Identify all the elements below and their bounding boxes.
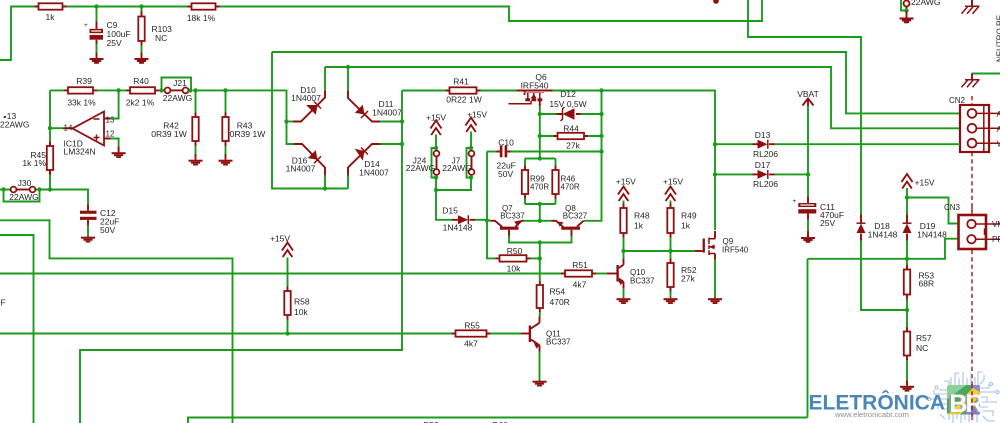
svg-text:22AWG: 22AWG — [911, 0, 940, 7]
node R44 left — [538, 134, 542, 138]
svg-text:J30: J30 — [18, 178, 32, 188]
wire D15 out — [475, 219, 487, 221]
svg-text:RL206: RL206 — [753, 149, 778, 159]
svg-text:VM: VM — [992, 220, 1000, 229]
svg-text:0R22 1W: 0R22 1W — [446, 95, 481, 105]
wire jumpers join — [436, 178, 471, 220]
svg-text:F: F — [1, 298, 6, 308]
svg-text:IRF540: IRF540 — [521, 81, 549, 91]
wire D16 bottom — [324, 175, 326, 189]
svg-text:22AWG: 22AWG — [442, 163, 471, 173]
transistor Q8 — [552, 221, 584, 236]
svg-text:22AWG: 22AWG — [0, 120, 29, 130]
wire top rail mid — [67, 6, 188, 8]
resistor R58 — [284, 258, 290, 334]
node bridge left — [284, 119, 288, 123]
svg-text:25V: 25V — [820, 218, 835, 228]
wire pin13 — [111, 90, 119, 118]
supply +15V R58 — [282, 243, 293, 258]
svg-text:1N4007: 1N4007 — [286, 164, 316, 174]
wire J21 to bridge — [193, 90, 287, 121]
diode D15 — [452, 215, 475, 224]
resistor R57 — [904, 310, 910, 381]
connector CN2 — [949, 96, 1000, 214]
wire Q7 Q8 emitters join — [509, 236, 572, 243]
ground Q11 — [533, 380, 547, 387]
wire CN3 pin1 — [907, 198, 958, 224]
svg-text:22AWG: 22AWG — [163, 93, 192, 103]
wire D11 out — [380, 121, 402, 123]
svg-text:CN3: CN3 — [944, 203, 961, 212]
node VBAT D17 — [806, 172, 810, 176]
wire stub top cut component — [713, 0, 719, 4]
wire bottom bus — [188, 418, 808, 423]
supply +15V D19 — [902, 174, 913, 189]
diode D17 — [753, 170, 775, 179]
resistor R41 — [446, 87, 481, 93]
wire D18 bottom — [861, 241, 907, 311]
jumper J7 — [467, 146, 475, 180]
svg-text:470R: 470R — [530, 183, 549, 192]
capacitor C11 — [793, 197, 817, 232]
node R49 bottom — [668, 249, 672, 253]
wire Q8 collector vertical — [584, 91, 602, 221]
wire R99 R46 bottom join — [525, 204, 556, 221]
node R53 top — [905, 257, 909, 261]
wire VBAT vertical — [807, 106, 809, 197]
ground C12 — [81, 236, 95, 243]
node R42 top — [193, 88, 197, 92]
wire bus y333 — [0, 333, 452, 335]
svg-text:1k: 1k — [634, 221, 644, 231]
resistor R51 — [561, 270, 607, 276]
node R44 right — [599, 134, 603, 138]
capacitor C12 — [80, 205, 97, 237]
node R43 top — [223, 88, 227, 92]
svg-text:68R: 68R — [919, 279, 935, 289]
supply +15V J7 — [466, 110, 488, 149]
svg-text:BR: BR — [949, 390, 983, 418]
wire R99 R46 top join — [525, 158, 556, 160]
svg-text:1k: 1k — [681, 221, 691, 231]
supply +15V R49 — [665, 187, 676, 202]
supply +15V J24 — [426, 113, 446, 149]
svg-text:1N4148: 1N4148 — [917, 230, 947, 240]
svg-text:RL206: RL206 — [753, 179, 778, 189]
node Q7 base bus left — [485, 218, 489, 222]
node jumpers join — [434, 188, 438, 192]
earth symbol top right — [962, 0, 980, 14]
wire gate row y251 — [624, 250, 696, 252]
resistor R48 — [620, 201, 626, 252]
jumper J21 — [159, 78, 192, 94]
resistor R103 — [138, 7, 144, 53]
node R99R46 top — [538, 156, 542, 160]
svg-text:470R: 470R — [550, 297, 570, 307]
wire AC bus y67 — [325, 67, 960, 128]
wire Q6 source down — [539, 107, 541, 159]
node R99R46 bottom — [538, 202, 542, 206]
resistor 1k — [35, 3, 67, 9]
svg-text:27k: 27k — [681, 274, 695, 284]
ground R43 — [219, 154, 233, 166]
wire D19 bottom — [906, 241, 908, 259]
ground Q10 — [617, 298, 631, 305]
node C10 right — [599, 149, 603, 153]
svg-text:IRF540: IRF540 — [722, 246, 749, 255]
transistor Q11 — [521, 317, 540, 381]
svg-text:10k: 10k — [507, 264, 521, 274]
node center base bus — [538, 219, 542, 223]
svg-text:D15: D15 — [442, 206, 458, 216]
svg-text:NC: NC — [916, 343, 928, 353]
node R39-R40 — [116, 88, 120, 92]
capacitor C9 — [84, 7, 103, 53]
jumper J30 — [1, 187, 41, 202]
svg-text:0R39 1W: 0R39 1W — [151, 129, 186, 139]
svg-text:+15V: +15V — [663, 177, 683, 187]
svg-text:+15V: +15V — [616, 177, 636, 187]
svg-text:J21: J21 — [173, 78, 187, 88]
svg-text:D17: D17 — [755, 160, 771, 170]
svg-text:R57: R57 — [916, 333, 932, 343]
svg-text:1N4007: 1N4007 — [372, 108, 402, 118]
svg-text:13: 13 — [106, 116, 115, 125]
wire bridge left stub — [287, 121, 294, 123]
wire Q7-Q8 base bus — [524, 220, 552, 222]
node op-amp out — [48, 126, 52, 130]
diode D16 — [294, 144, 325, 175]
jumper J?? top right — [901, 0, 910, 11]
diode D11 — [348, 67, 380, 122]
svg-text:R50: R50 — [507, 246, 523, 256]
svg-text:33k 1%: 33k 1% — [67, 98, 96, 108]
resistor R42 — [192, 90, 198, 154]
wire AC bus y37 — [748, 0, 861, 215]
wire AC bus y52 — [272, 52, 960, 113]
svg-text:D13: D13 — [755, 130, 771, 140]
resistor R44 — [554, 133, 589, 139]
jumper J24 — [432, 146, 440, 180]
svg-text:+: + — [84, 22, 88, 29]
node D19 +15 — [905, 195, 909, 199]
svg-text:V: V — [997, 140, 1000, 149]
ground R103 — [135, 53, 149, 64]
svg-text:1k 1%: 1k 1% — [22, 158, 46, 168]
svg-text:25V: 25V — [107, 38, 122, 48]
ground Q9 — [708, 298, 722, 305]
wire bridge left node — [287, 122, 295, 145]
svg-text:50V: 50V — [498, 169, 513, 179]
transistor Q7 — [487, 220, 524, 236]
svg-text:1N4007: 1N4007 — [291, 93, 321, 103]
node R45 bottom — [48, 187, 52, 191]
svg-text:BC327: BC327 — [563, 212, 588, 221]
svg-text:R39: R39 — [76, 76, 92, 86]
logo traces — [927, 372, 999, 423]
svg-text:10k: 10k — [294, 307, 308, 317]
ground C11 — [801, 231, 815, 243]
diode D13 — [753, 140, 775, 149]
svg-text:12: 12 — [106, 130, 115, 139]
resistor R52 — [667, 251, 673, 298]
svg-text:NC: NC — [155, 33, 167, 43]
svg-text:R54: R54 — [550, 287, 566, 297]
resistor R53 — [904, 259, 910, 310]
svg-text:4k7: 4k7 — [464, 339, 478, 349]
node R58 bottom — [285, 331, 289, 335]
svg-text:1k: 1k — [46, 12, 56, 22]
logo chip square — [947, 385, 980, 415]
node D17 in — [713, 172, 717, 176]
wire earth 2 — [972, 73, 1000, 75]
resistor R50 — [496, 255, 540, 261]
svg-text:+: + — [793, 198, 797, 205]
node D11 top — [346, 65, 350, 69]
svg-text:A: A — [997, 125, 1000, 134]
wire op-amp out — [50, 127, 63, 129]
svg-text:14: 14 — [64, 124, 73, 133]
resistor R40 — [126, 87, 159, 93]
transistor Q10 — [607, 251, 624, 298]
svg-text:27k: 27k — [566, 141, 580, 151]
resistor R43 — [222, 90, 228, 154]
svg-text:LM324N: LM324N — [64, 147, 96, 157]
wire R41 row — [402, 91, 715, 231]
wire C10 left vertical — [487, 152, 496, 259]
diode D10 — [293, 90, 325, 121]
supply +15V R48 — [618, 187, 629, 202]
mosfet Q6 — [509, 91, 553, 107]
wire D12 row — [540, 113, 602, 115]
wire R44 row — [540, 135, 602, 137]
op-amp IC1D — [63, 112, 111, 146]
svg-text:22AWG: 22AWG — [406, 163, 435, 173]
wire D13 row — [715, 143, 960, 145]
resistor R45 — [47, 142, 53, 175]
diode D14 — [348, 144, 380, 189]
svg-text:1N4007: 1N4007 — [359, 168, 389, 178]
wire bus y220 — [0, 220, 233, 423]
ground R57 — [900, 381, 914, 392]
node bridge bottom — [323, 186, 327, 190]
node R53 bottom — [905, 308, 909, 312]
node bridge right top — [400, 119, 404, 123]
earth symbol 2 — [962, 74, 980, 88]
svg-text:D12: D12 — [560, 89, 576, 99]
svg-text:R51: R51 — [572, 260, 588, 270]
diode D12 zener — [557, 107, 581, 121]
svg-text:www.eletronicabr.com: www.eletronicabr.com — [834, 410, 909, 419]
node C9 top — [94, 4, 98, 8]
resistor R39 — [64, 87, 97, 93]
wire emitters to R50 — [539, 243, 541, 282]
label J13 net — [0, 111, 29, 130]
wire bus y258 — [808, 239, 959, 418]
node Q6 gate right — [599, 88, 603, 92]
wire D14 out — [380, 143, 402, 145]
svg-text:R58: R58 — [294, 297, 310, 307]
resistor R49 — [667, 201, 673, 252]
wire top rail left — [0, 7, 35, 61]
diode D18 — [857, 215, 866, 241]
resistor R46 — [552, 159, 558, 205]
wire R39 row — [50, 89, 164, 91]
svg-text:2k2 1%: 2k2 1% — [126, 98, 155, 108]
svg-text:18k 1%: 18k 1% — [187, 13, 216, 23]
node R50 right — [538, 256, 542, 260]
wire bridge bottom — [272, 52, 348, 189]
svg-text:1N4148: 1N4148 — [443, 223, 473, 233]
wire bus y235 — [0, 235, 34, 423]
supply VBAT arrow — [803, 99, 814, 107]
svg-text:50V: 50V — [100, 225, 115, 235]
node jumper gnd — [904, 8, 908, 12]
svg-text:C10: C10 — [498, 138, 514, 148]
ground C9 — [90, 53, 104, 64]
node R103 top — [139, 4, 143, 8]
node bridge right bottom — [400, 142, 404, 146]
diode D19 — [903, 215, 912, 241]
svg-text:4k7: 4k7 — [573, 280, 587, 290]
svg-text:+15V: +15V — [915, 178, 935, 188]
ground pin12 — [112, 147, 126, 159]
node R48 bottom — [621, 249, 625, 253]
wire pin12 — [111, 139, 119, 147]
svg-text:BC337: BC337 — [500, 212, 525, 221]
node D12 left — [538, 112, 542, 116]
wire D19 top — [906, 188, 908, 215]
wire top rail right — [220, 0, 763, 21]
svg-text:22AWG: 22AWG — [9, 192, 38, 202]
resistor R99 — [522, 159, 528, 205]
connector CN3 — [944, 203, 1000, 420]
svg-text:R48: R48 — [634, 211, 650, 221]
wire D17 row — [715, 173, 808, 175]
svg-text:15V 0,5W: 15V 0,5W — [549, 99, 586, 109]
svg-text:R41: R41 — [453, 77, 469, 87]
ground R42 — [189, 154, 203, 166]
resistor R54 — [537, 281, 543, 317]
wire J30 row — [0, 190, 88, 205]
wire R39 feedback vertical — [49, 90, 51, 189]
svg-text:R49: R49 — [681, 211, 697, 221]
ground top right — [900, 11, 914, 23]
node emitters join — [538, 240, 542, 244]
svg-text:CN2: CN2 — [949, 96, 966, 105]
svg-text:BC337: BC337 — [630, 277, 655, 286]
wire bus y273 — [0, 273, 561, 275]
svg-text:BC337: BC337 — [546, 338, 571, 347]
svg-text:R40: R40 — [133, 76, 149, 86]
svg-text:NEUTRO RE: NEUTRO RE — [996, 15, 1000, 62]
logo eletronicabr — [809, 372, 1000, 423]
svg-text:470R: 470R — [561, 183, 580, 192]
capacitor C10 — [487, 146, 602, 158]
dashed CN3 overlay on logo — [971, 384, 973, 420]
svg-text:R55: R55 — [464, 321, 480, 331]
svg-text:0R39 1W: 0R39 1W — [230, 129, 265, 139]
svg-text:R44: R44 — [563, 124, 579, 134]
svg-text:PR: PR — [992, 235, 1000, 244]
node D13 in — [713, 142, 717, 146]
svg-text:1N4148: 1N4148 — [868, 230, 898, 240]
node D12 right — [599, 112, 603, 116]
wire bridge right vertical — [80, 91, 402, 423]
mosfet Q9 — [695, 231, 715, 298]
svg-text:A: A — [997, 110, 1000, 119]
resistor R55 — [452, 330, 522, 336]
ground R52 — [664, 298, 678, 305]
resistor 18k — [188, 3, 220, 9]
wire D10 top — [324, 67, 326, 90]
